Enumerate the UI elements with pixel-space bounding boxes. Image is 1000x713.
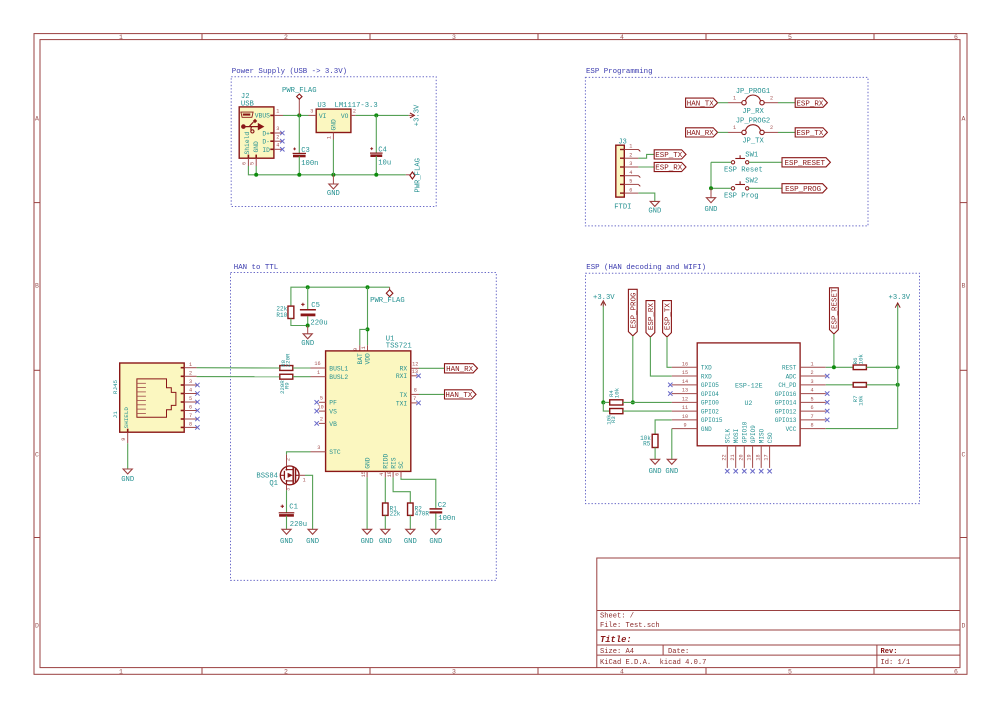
U2 pin 18 MISO xyxy=(755,428,765,473)
U1 pin 15 GND xyxy=(361,471,367,477)
U1 pin 16 BUSL1 xyxy=(311,361,326,368)
svg-text:RIS: RIS xyxy=(390,457,397,469)
svg-text:ESP Reset: ESP Reset xyxy=(724,167,763,175)
capacitor C5 220u xyxy=(300,287,328,327)
U2 pin 12 GPIO0 xyxy=(672,396,720,406)
svg-text:ID: ID xyxy=(262,147,270,154)
svg-text:6: 6 xyxy=(242,162,248,165)
svg-text:2: 2 xyxy=(770,95,773,101)
svg-text:6: 6 xyxy=(395,473,401,476)
switch SW1 ESP Reset xyxy=(724,152,763,175)
svg-text:STC: STC xyxy=(329,449,341,456)
svg-text:12: 12 xyxy=(412,362,418,368)
U1 pin 8 TX xyxy=(411,388,419,395)
capacitor C4 10u xyxy=(370,115,391,174)
svg-text:ESP_RX: ESP_RX xyxy=(655,165,683,173)
wire JP_PROG2 pin2 to ESP_TX xyxy=(778,131,795,133)
svg-text:2: 2 xyxy=(284,34,288,41)
junction at ESP_RESET bottom xyxy=(832,365,836,369)
global label HAN_RX at U1 xyxy=(445,364,478,374)
J1 pin 3 xyxy=(184,379,199,387)
svg-text:JP_PROG2: JP_PROG2 xyxy=(736,118,771,126)
wire R9 to U1 BUSL2 xyxy=(293,376,311,378)
U1 pin 1 BUSL2 xyxy=(311,370,326,377)
svg-text:VO: VO xyxy=(341,113,349,120)
capacitor C3 100n xyxy=(293,115,319,174)
global label ESP_TX vertical xyxy=(663,301,673,337)
frame zone letters right xyxy=(962,116,966,630)
svg-text:6: 6 xyxy=(189,405,192,411)
svg-text:10u: 10u xyxy=(378,160,391,168)
junction at R4 left xyxy=(601,400,605,404)
global label ESP_TX at J3 xyxy=(654,150,686,160)
svg-text:HAN to TTL: HAN to TTL xyxy=(234,264,278,272)
svg-text:ESP_RX: ESP_RX xyxy=(796,100,824,108)
U2 pin 21 MOSI xyxy=(730,429,740,474)
power symbol +3.3V right xyxy=(889,294,911,429)
resistor R8 body xyxy=(280,366,293,371)
svg-text:3: 3 xyxy=(317,445,320,451)
svg-text:SHIELD: SHIELD xyxy=(123,407,130,429)
svg-text:GPIO12: GPIO12 xyxy=(775,408,797,415)
U2 pin 14 GPIO5 xyxy=(668,379,719,389)
svg-text:HAN_RX: HAN_RX xyxy=(687,130,715,138)
svg-text:GPIO13: GPIO13 xyxy=(775,417,797,424)
svg-text:12: 12 xyxy=(682,396,688,402)
svg-text:1: 1 xyxy=(119,34,123,41)
svg-text:RJ45: RJ45 xyxy=(112,379,119,394)
svg-text:10: 10 xyxy=(682,414,688,420)
svg-text:VI: VI xyxy=(319,113,327,120)
svg-text:4: 4 xyxy=(620,34,624,41)
ground under J3 xyxy=(648,201,661,215)
svg-text:SW1: SW1 xyxy=(745,152,758,160)
svg-text:U3: U3 xyxy=(317,102,326,110)
svg-text:VBUS: VBUS xyxy=(255,113,270,120)
frame column ticks xyxy=(202,34,874,675)
J3 pin 2 xyxy=(620,152,638,159)
global label ESP_RX xyxy=(795,98,827,108)
svg-text:GND: GND xyxy=(648,207,661,215)
J1 pin pads xyxy=(127,367,184,432)
svg-text:R9: R9 xyxy=(283,382,290,389)
junction at SW2 left xyxy=(709,186,713,190)
section box: HAN to TTL xyxy=(231,264,497,580)
svg-text:4: 4 xyxy=(810,388,813,394)
U2 pin 6 GPIO12 xyxy=(775,405,830,415)
U2 pin 2 ADC xyxy=(786,370,830,380)
U2 pin 3 CH_PD xyxy=(778,379,825,389)
svg-text:14: 14 xyxy=(682,379,688,385)
svg-text:VDD: VDD xyxy=(365,353,372,365)
wire J1 pin2 to R9 xyxy=(197,376,280,378)
wire Q1 right to ground xyxy=(305,475,313,529)
svg-text:RIDD: RIDD xyxy=(383,453,390,468)
svg-text:C2: C2 xyxy=(438,502,447,510)
wire Q1 bottom to C1 xyxy=(286,490,288,512)
U3 pin 2 VO xyxy=(351,109,356,116)
svg-text:GND: GND xyxy=(364,457,371,469)
svg-text:220R: 220R xyxy=(285,353,292,367)
svg-text:Id: 1/1: Id: 1/1 xyxy=(881,659,911,667)
ground symbol under U3 xyxy=(332,175,334,184)
svg-text:VB: VB xyxy=(329,421,337,428)
U1 pin 4 RIDD xyxy=(379,471,385,477)
svg-text:VS: VS xyxy=(329,409,337,416)
resistor R7 body xyxy=(853,383,866,388)
svg-text:470R: 470R xyxy=(415,511,430,518)
J1 pin 7 xyxy=(184,413,199,421)
svg-text:Q1: Q1 xyxy=(269,480,278,488)
junction VDD riser top xyxy=(366,285,370,289)
U1 pin 5 PF no-connect xyxy=(315,396,326,405)
svg-text:21: 21 xyxy=(730,454,736,460)
svg-text:LM1117-3.3: LM1117-3.3 xyxy=(335,102,378,110)
svg-text:9: 9 xyxy=(121,438,127,441)
capacitor C1 plates xyxy=(279,513,295,516)
svg-text:PWR_FLAG: PWR_FLAG xyxy=(415,158,423,193)
global label ESP_TX xyxy=(795,128,827,138)
J2 pin 3 D+ no-connect xyxy=(274,126,285,135)
svg-text:GPIO2: GPIO2 xyxy=(701,408,719,415)
J1 pin 4 xyxy=(184,388,199,396)
wire J1 pin1 to R8 xyxy=(197,367,280,369)
svg-text:ESP Programming: ESP Programming xyxy=(586,68,653,76)
svg-text:GPIO4: GPIO4 xyxy=(701,391,719,398)
svg-text:3: 3 xyxy=(189,379,192,385)
junction C5 bottom xyxy=(306,324,310,328)
U1 pin 7 TXI no-connect xyxy=(411,396,421,405)
svg-text:J3: J3 xyxy=(618,139,627,147)
svg-text:C3: C3 xyxy=(301,147,310,155)
svg-text:ESP_RX: ESP_RX xyxy=(648,303,656,331)
svg-text:3: 3 xyxy=(452,34,456,41)
J3 pin 5 xyxy=(620,179,640,187)
svg-text:7: 7 xyxy=(810,414,813,420)
wire down to R3 xyxy=(603,402,609,411)
svg-text:R5: R5 xyxy=(643,441,651,448)
U1 pin 19 RIS xyxy=(387,471,393,477)
junction C3 bottom xyxy=(297,173,301,177)
svg-text:D: D xyxy=(962,623,966,630)
svg-text:GND: GND xyxy=(280,538,293,546)
U1 pin 10 VS no-connect xyxy=(315,404,326,413)
J2 pin 2 D- no-connect xyxy=(274,134,285,143)
svg-text:19: 19 xyxy=(387,471,393,477)
top power rail of HAN section xyxy=(291,287,390,306)
svg-text:GND: GND xyxy=(701,426,712,433)
svg-text:19: 19 xyxy=(747,454,753,460)
global label HAN_TX xyxy=(686,98,718,108)
svg-text:4: 4 xyxy=(620,669,624,676)
capacitor C4 plates xyxy=(370,153,383,156)
U2 pin 19 GPIO9 xyxy=(747,425,757,474)
ground GND power section xyxy=(327,184,340,198)
junction BAT-VDD xyxy=(366,327,370,331)
svg-text:CSO: CSO xyxy=(767,432,774,443)
wire RIDD to R1 xyxy=(384,477,386,503)
svg-text:2: 2 xyxy=(189,371,192,377)
ground under R5 xyxy=(649,459,662,476)
svg-text:1: 1 xyxy=(629,144,632,150)
wire R5 to ground xyxy=(654,448,656,460)
J3 pin 6 xyxy=(620,187,638,193)
svg-text:FTDI: FTDI xyxy=(614,203,631,211)
svg-text:2: 2 xyxy=(810,370,813,376)
IC U1 TSS721 body xyxy=(326,335,412,471)
wire +3.3V junction to R4 xyxy=(603,401,609,403)
wire joining SW1 SW2 xyxy=(710,162,712,188)
svg-text:1: 1 xyxy=(119,669,123,676)
svg-text:ESP_TX: ESP_TX xyxy=(655,152,683,160)
svg-text:TSS721: TSS721 xyxy=(386,343,412,351)
svg-text:8: 8 xyxy=(414,388,417,394)
svg-text:7: 7 xyxy=(189,413,192,419)
svg-text:1: 1 xyxy=(733,125,736,131)
ground wire bottom rail of power section xyxy=(248,166,405,175)
global label ESP_RX vertical xyxy=(646,301,656,337)
svg-text:GND: GND xyxy=(301,340,314,348)
svg-text:2: 2 xyxy=(276,134,279,140)
svg-text:GND: GND xyxy=(253,141,260,153)
svg-text:3: 3 xyxy=(310,109,313,115)
svg-text:Rev:: Rev: xyxy=(881,648,898,656)
svg-text:C5: C5 xyxy=(311,302,320,310)
svg-text:TXI: TXI xyxy=(396,400,408,407)
svg-text:PWR_FLAG: PWR_FLAG xyxy=(282,87,317,95)
capacitor C2 100n xyxy=(430,502,456,529)
global label ESP_RESET vertical xyxy=(830,288,840,334)
U1 pin 3 STC xyxy=(311,445,326,452)
wire ESP_RESET down to REST xyxy=(833,334,835,367)
wire U3 GND to rail xyxy=(332,140,334,175)
svg-text:9: 9 xyxy=(683,423,686,429)
wire J2 VBUS to U3 VI xyxy=(283,114,309,116)
svg-text:220u: 220u xyxy=(290,521,307,529)
junction at ESP_PROG bottom xyxy=(631,400,635,404)
svg-text:15: 15 xyxy=(682,370,688,376)
title block frame xyxy=(597,558,960,668)
svg-text:ESP_PROG: ESP_PROG xyxy=(785,186,822,194)
svg-text:17: 17 xyxy=(764,454,770,460)
svg-text:GND: GND xyxy=(429,538,442,546)
svg-text:5: 5 xyxy=(810,396,813,402)
svg-text:ESP_PROG: ESP_PROG xyxy=(630,292,638,329)
U1 pin 13 RXI no-connect xyxy=(411,369,421,378)
svg-text:8: 8 xyxy=(189,422,192,428)
J2 pin pads xyxy=(248,115,274,159)
J1 pin 6 xyxy=(184,405,199,413)
resistor R6 body xyxy=(853,365,866,370)
wire R1 to ground xyxy=(384,515,386,529)
U2 pin 20 GPIO10 xyxy=(738,421,748,473)
wire U3 VO to +3.3V xyxy=(355,114,408,116)
J1 pin 1 xyxy=(184,362,196,368)
svg-text:10k: 10k xyxy=(614,387,621,398)
svg-text:6: 6 xyxy=(954,34,958,41)
wire C5 bottom to ground xyxy=(307,326,309,334)
IC U2 ESP-12E body xyxy=(697,343,800,446)
svg-text:ESP (HAN decoding and WIFI): ESP (HAN decoding and WIFI) xyxy=(586,264,706,272)
svg-text:Shield: Shield xyxy=(244,132,251,155)
svg-text:SW2: SW2 xyxy=(745,178,758,186)
wire R8 to U1 BUSL1 xyxy=(293,367,311,369)
svg-text:Title:: Title: xyxy=(600,635,632,645)
junction C4 bottom xyxy=(374,173,378,177)
svg-text:B: B xyxy=(35,283,39,290)
Q1 pin 3 bottom xyxy=(285,485,291,491)
svg-text:D: D xyxy=(35,623,39,630)
svg-text:8: 8 xyxy=(810,423,813,429)
wire HAN_TX to JP_PROG1 pin1 xyxy=(718,102,728,104)
wire ESP_PROG down to R4 line xyxy=(632,336,634,403)
wire SW1 to ESP_RESET xyxy=(749,161,782,163)
svg-text:6: 6 xyxy=(954,669,958,676)
svg-text:GND: GND xyxy=(649,468,662,476)
J2 pin 5 GND xyxy=(249,158,256,166)
svg-text:GND: GND xyxy=(705,206,718,214)
svg-text:GPIO15: GPIO15 xyxy=(701,417,723,424)
junction R7 right xyxy=(896,383,900,387)
svg-text:C1: C1 xyxy=(289,504,298,512)
svg-text:1: 1 xyxy=(810,361,813,367)
wire left of SW1 xyxy=(711,161,731,163)
svg-text:13: 13 xyxy=(682,388,688,394)
section box: ESP decoding xyxy=(586,264,920,503)
wire R2 to ground xyxy=(409,515,411,529)
transistor Q1 BSS84 xyxy=(256,466,299,488)
svg-text:HAN_TX: HAN_TX xyxy=(687,100,715,108)
U2 pin 9 GND xyxy=(672,423,712,433)
svg-text:BUSL2: BUSL2 xyxy=(329,374,348,381)
J2 pin 1 VBUS xyxy=(274,109,283,116)
wire U1 TX to HAN_TX xyxy=(419,393,445,395)
svg-text:A: A xyxy=(962,116,966,123)
U2 pin 16 TXD xyxy=(672,361,712,371)
U1 pin 9 BAT stub xyxy=(353,345,360,351)
svg-text:A: A xyxy=(35,116,39,123)
U2 pin 1 REST xyxy=(782,361,826,371)
svg-text:GND: GND xyxy=(121,476,134,484)
global label HAN_TX at U1 xyxy=(445,390,477,400)
svg-text:ESP-12E: ESP-12E xyxy=(735,382,763,389)
svg-text:4: 4 xyxy=(629,170,632,176)
svg-text:GPIO0: GPIO0 xyxy=(701,400,719,407)
junction R6 right xyxy=(896,365,900,369)
wire SW junction to ground xyxy=(710,188,712,197)
wire VCC to +3.3V riser xyxy=(826,428,898,430)
power symbol +3.3V right-pointing xyxy=(409,104,422,126)
J2 pin 4 ID no-connect xyxy=(274,143,285,152)
svg-text:4: 4 xyxy=(276,143,279,149)
svg-text:Sheet: /: Sheet: / xyxy=(600,612,634,620)
wire SC to C2 xyxy=(401,477,436,508)
ground under U2 GND xyxy=(665,459,678,476)
J3 pin 4 xyxy=(620,170,640,178)
power flag PWR_FLAG top xyxy=(282,87,317,115)
svg-text:GPIO10: GPIO10 xyxy=(742,421,749,443)
svg-text:220u: 220u xyxy=(310,319,327,327)
svg-text:2: 2 xyxy=(284,669,288,676)
svg-text:6: 6 xyxy=(629,187,632,193)
connector J3 FTDI body xyxy=(614,139,631,212)
junction U3 GND bottom xyxy=(331,173,335,177)
svg-text:BUSL1: BUSL1 xyxy=(329,365,348,372)
svg-text:1: 1 xyxy=(317,370,320,376)
ground under C2 xyxy=(429,529,442,546)
svg-text:10k: 10k xyxy=(857,395,864,406)
ground right of C1 xyxy=(306,529,319,546)
wire SW2 to ESP_PROG xyxy=(749,187,782,189)
svg-text:2: 2 xyxy=(353,109,356,115)
U2 pin 17 CSO xyxy=(764,432,774,473)
svg-text:PF: PF xyxy=(329,400,337,407)
svg-text:+3.3V: +3.3V xyxy=(593,294,615,302)
svg-text:GND: GND xyxy=(327,190,340,198)
ground under U1 GND xyxy=(361,529,374,546)
svg-text:1: 1 xyxy=(189,362,192,368)
power flag PWR_FLAG in HAN section xyxy=(370,287,405,305)
resistor R9 body xyxy=(280,374,293,379)
svg-text:RXD: RXD xyxy=(701,373,712,380)
svg-text:GPIO9: GPIO9 xyxy=(750,425,757,443)
J1 pin 2 xyxy=(184,371,196,377)
svg-text:File: Test.sch: File: Test.sch xyxy=(600,622,660,630)
svg-text:5: 5 xyxy=(788,669,792,676)
J1 pin 8 xyxy=(184,422,199,430)
svg-text:100n: 100n xyxy=(301,160,318,168)
svg-text:1: 1 xyxy=(733,95,736,101)
ground under C5 xyxy=(301,334,314,348)
svg-text:GND: GND xyxy=(306,538,319,546)
svg-text:VCC: VCC xyxy=(786,426,797,433)
capacitor C3 plates xyxy=(293,153,306,156)
svg-text:5: 5 xyxy=(320,396,323,402)
svg-text:GPIO14: GPIO14 xyxy=(775,400,797,407)
svg-text:3: 3 xyxy=(810,379,813,385)
svg-text:1: 1 xyxy=(276,109,279,115)
svg-text:2: 2 xyxy=(320,417,323,423)
wire RIS to R2 xyxy=(393,477,410,503)
svg-text:GND: GND xyxy=(379,538,392,546)
svg-text:SCLK: SCLK xyxy=(725,428,732,443)
wire U2 GND pin to ground xyxy=(671,429,673,460)
resistor R4 body xyxy=(610,400,623,405)
wire ESP_RX down to RXD xyxy=(650,337,671,376)
frame zone numbers bottom xyxy=(119,669,958,676)
wire BAT bend xyxy=(360,329,368,345)
svg-text:PWR_FLAG: PWR_FLAG xyxy=(370,297,405,305)
power flag PWR_FLAG bottom-right xyxy=(406,158,423,193)
svg-text:1: 1 xyxy=(303,477,306,483)
J3 pin 1 xyxy=(620,144,640,152)
regulator U3 LM1117-3.3 body xyxy=(316,102,377,132)
ground under C1 xyxy=(280,529,293,546)
svg-text:22k: 22k xyxy=(390,511,401,518)
svg-text:ESP_TX: ESP_TX xyxy=(665,303,673,331)
wire J3 pin2 to ESP_TX label xyxy=(638,154,654,158)
svg-text:2: 2 xyxy=(770,125,773,131)
svg-text:ESP_RESET: ESP_RESET xyxy=(832,288,840,329)
svg-text:+3.3V: +3.3V xyxy=(889,294,911,302)
jumper JP_PROG1 xyxy=(728,88,778,116)
ground under J1 xyxy=(121,469,134,484)
J2 pin 6 Shield xyxy=(242,158,249,166)
svg-text:22: 22 xyxy=(721,454,727,460)
svg-text:11: 11 xyxy=(682,405,688,411)
U2 pin 15 RXD xyxy=(672,370,712,380)
svg-text:20: 20 xyxy=(738,454,744,460)
